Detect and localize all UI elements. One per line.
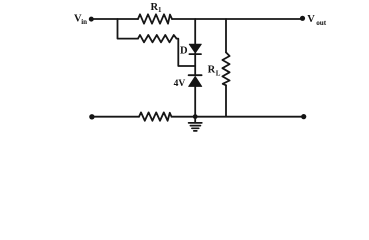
svg-text:1: 1: [158, 6, 162, 14]
label Vin: [74, 14, 87, 26]
wire bottom-left to bottom resistor: [92, 116, 139, 118]
wire top rail to RL: [225, 19, 227, 52]
node bottom-left terminal dot: [89, 114, 94, 119]
svg-text:V: V: [307, 14, 315, 25]
svg-text:in: in: [81, 18, 87, 26]
wire R1 to Vout: [172, 18, 303, 20]
svg-text:out: out: [316, 19, 327, 27]
resistor RL (vertical zigzag): [222, 52, 229, 85]
wire Vin to R1: [91, 18, 138, 20]
label RL: [208, 64, 221, 77]
wire RL to bottom rail: [225, 85, 227, 116]
resistor (unlabeled, input tap series): [138, 35, 177, 42]
wire top rail to diode D anode: [194, 19, 196, 44]
ground symbol: [189, 117, 202, 131]
wire tap from input rail down to series resistor: [118, 19, 139, 39]
diode D (cathode down): [189, 44, 201, 54]
label Vout: [307, 14, 327, 27]
svg-text:D: D: [180, 45, 188, 56]
wire D cathode to 4V cathode: [194, 53, 196, 75]
node bottom-right terminal dot: [301, 114, 306, 119]
svg-text:L: L: [216, 70, 221, 78]
resistor (unlabeled, bottom rail): [139, 112, 172, 120]
node Vin terminal dot: [89, 17, 94, 22]
junction ground node dot: [193, 114, 198, 119]
svg-text:R: R: [208, 64, 216, 75]
label R1: [151, 2, 163, 14]
wire series resistor to diode junction: [177, 39, 196, 66]
node Vout terminal dot: [300, 16, 305, 21]
svg-text:4V: 4V: [174, 79, 186, 89]
wire bottom resistor to bottom-right terminal: [172, 116, 304, 118]
zener diode 4V (cathode up): [189, 75, 202, 86]
wire 4V anode to bottom rail: [194, 87, 196, 117]
resistor R1: [138, 14, 172, 23]
